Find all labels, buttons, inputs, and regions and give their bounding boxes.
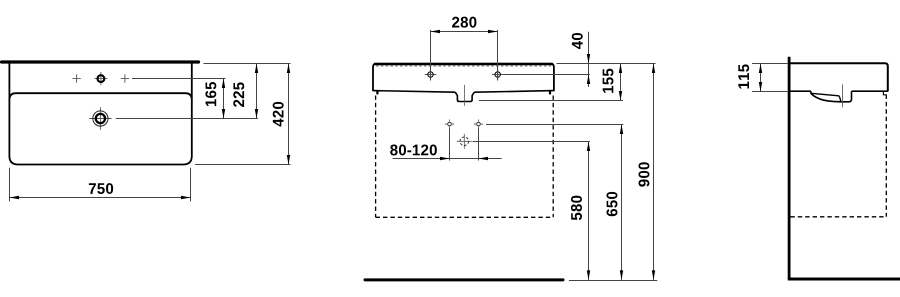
dimension 80-120 extension lines [449,129,451,161]
dashed installation outline left [375,96,377,218]
dimension 280 line [431,31,498,33]
dimension 40 line [588,32,590,87]
dimension 115 label [738,64,749,88]
dimension 650 arrows [620,125,623,135]
dimension 40 label [572,33,583,49]
extension line basin bottom right [195,164,291,166]
dashed installation outline bottom [376,216,554,218]
dimension 115 arrows [759,64,762,74]
floor extension line [569,280,657,282]
extension line faucet level [132,78,226,80]
left foot stub [376,91,378,95]
drain ring [96,114,105,123]
basin side profile [790,63,887,91]
extension line supply level [486,124,623,126]
right foot stub [549,91,551,95]
dimension 650 line [621,125,623,280]
extension line drain level [116,118,258,120]
dimension 420 line [288,64,290,165]
dimension 650 label [606,192,617,216]
drain outer circle [93,111,108,126]
bowl underside inner slant [811,93,841,101]
floor line [365,278,563,281]
faucet hole crosshair [94,72,107,85]
extension line outlet bottom [479,100,623,102]
floor line right [788,278,900,281]
dimension 420 arrows [287,64,290,74]
dimension 40 arrows (outside) [587,54,590,64]
basin outer outline (sides + rounded bottom) [9,63,191,164]
dimension 750 arrows [10,196,20,199]
extension line faucet hole level [504,74,591,76]
extension line rim top right [204,63,291,65]
dimension 280 label [452,17,476,28]
dimension 225 label [233,82,244,107]
wall line [788,57,791,279]
front lip step [883,91,886,94]
dimension 750 label [89,183,113,194]
dimension 115 extension lines [752,63,788,65]
left supply crosshair [445,120,454,129]
right supply crosshair [474,120,483,129]
dimension 225 arrows [255,64,258,74]
dimension 80-120 label [390,144,437,155]
left faucet hole crosshair [425,69,437,81]
drain outlet centerline [464,85,466,106]
dashed outline side right [885,95,887,217]
dimension 580 label [571,196,582,220]
right faucet hole circle [495,72,500,77]
dimension 155 arrows [619,64,622,74]
left supply connection circle [448,122,452,126]
faucet hole ring [98,75,105,82]
right plus mark [121,74,129,82]
dimension 750 line [10,197,191,199]
dimension 165 line [223,79,225,119]
bowl inner top edge with fillets [9,93,191,99]
drain outlet trapezoid [455,92,474,101]
dimension 155 line [620,64,622,101]
waste connection crosshair [457,134,472,149]
left faucet hole circle [428,72,433,77]
dimension 280 extension lines [430,30,432,81]
basin bottom edge [373,91,554,93]
bowl underside outer curve [811,91,852,102]
dimension 165 arrows [222,79,225,89]
waste connection dashed circle [460,137,469,146]
right supply connection circle [477,122,481,126]
extension line waste level [473,141,591,143]
dimension 280 arrows [431,30,441,33]
dimension 580 line [588,142,590,280]
basin rear rim bar (thick top edge) [2,60,199,63]
left plus mark [72,74,80,82]
hidden rim edge dashed [376,65,551,67]
right faucet hole crosshair [492,69,504,81]
basin top edge (thick) [374,63,553,65]
dashed installation outline right [552,96,554,218]
dimension 165 label [205,82,216,106]
dimension 115 line [760,64,762,92]
extension line basin top right [557,63,656,65]
basin body outline [373,64,554,91]
drain crosshair [89,107,111,129]
dimension 155 label [603,69,614,93]
dimension 225 line [256,64,258,119]
dimension 80-120 arrows [440,157,450,160]
drain centerline side view [842,84,844,107]
dimension 900 label [638,162,649,186]
dimension 420 label [273,102,284,127]
dimension 750 extension lines [9,168,11,202]
dimension 900 line [653,64,655,280]
dimension 80-120 line [393,158,502,160]
basin side bottom edge [790,90,887,92]
dashed outline side bottom [790,216,886,218]
dimension 900 arrows [652,64,655,74]
dimension 580 arrows [587,142,590,152]
